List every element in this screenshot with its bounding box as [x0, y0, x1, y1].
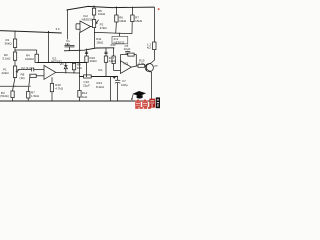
wire diode branch	[65, 69, 67, 73]
wire emitter down	[151, 73, 153, 101]
svg-text:(1k): (1k)	[20, 76, 25, 80]
junction	[127, 54, 128, 55]
potentiometer P1 wiper arrow	[16, 70, 19, 72]
svg-text:1.5kΩ: 1.5kΩ	[31, 94, 40, 98]
wire C7 bottom	[117, 83, 119, 101]
svg-text:4.7kΩ: 4.7kΩ	[55, 87, 64, 91]
op-amp IC3	[121, 61, 132, 74]
junction dots group	[14, 6, 136, 87]
resistor R7 1.5k	[27, 92, 30, 99]
wire wiper to C2	[18, 69, 32, 71]
junction	[79, 50, 80, 51]
svg-text:10k: 10k	[77, 66, 82, 70]
text labels	[0, 9, 158, 99]
transistor VT1	[145, 64, 153, 72]
wire into IC box	[118, 33, 120, 36]
resistor R15	[138, 64, 145, 67]
svg-text:47kΩ: 47kΩ	[100, 26, 108, 30]
resistor R9 10k	[72, 63, 75, 70]
wire IC2 out	[91, 26, 93, 28]
junction	[86, 76, 87, 77]
capacitor C1 10u plates	[65, 44, 75, 46]
svg-text:IC3: IC3	[124, 61, 129, 65]
wire IC3 feedback	[121, 55, 128, 64]
wire P2 down	[94, 28, 96, 48]
svg-text:10kΩ: 10kΩ	[119, 19, 127, 23]
wire R7 top	[28, 76, 30, 92]
wire R16 chain	[86, 49, 88, 57]
resistor R16	[85, 56, 88, 62]
red speck top right	[158, 8, 160, 10]
wire right rail upper	[154, 7, 156, 42]
junction	[48, 31, 49, 32]
wire y38 link	[95, 32, 133, 33]
capacitor C2 2.2u	[31, 68, 33, 72]
svg-text:22µF: 22µF	[83, 83, 90, 87]
junction	[48, 62, 49, 63]
wire C2 to IC1	[34, 69, 44, 71]
potentiometer P1 body	[13, 66, 16, 78]
svg-text:36kΩ: 36kΩ	[5, 42, 13, 46]
wire R9 branch	[73, 70, 75, 73]
wire P1 bottom	[13, 78, 16, 92]
junction	[14, 86, 15, 87]
wire C1 bottom	[69, 47, 71, 51]
svg-text:43kΩ: 43kΩ	[109, 59, 117, 63]
watermark red character 2	[142, 100, 148, 107]
junction	[29, 86, 30, 87]
wire ground link y86	[0, 85, 28, 87]
watermark red url dashes	[135, 107, 151, 109]
resistor R12 1k	[78, 91, 81, 98]
wire IC1 gain leg	[51, 77, 53, 83]
wire R10 chain	[113, 48, 115, 56]
junction	[110, 76, 111, 77]
junction	[67, 9, 68, 10]
potentiometer P2 wiper arrow	[96, 20, 99, 24]
junction	[73, 72, 74, 73]
svg-text:10kΩ: 10kΩ	[90, 59, 98, 63]
svg-text:10µ: 10µ	[65, 42, 70, 46]
svg-text:5.6k: 5.6k	[139, 61, 145, 65]
svg-text:1kΩ: 1kΩ	[82, 95, 88, 99]
wire R2-P1	[14, 60, 16, 66]
svg-text:5.1kΩ: 5.1kΩ	[3, 57, 12, 61]
resistor R1 36k	[13, 39, 16, 48]
wire mid rail A	[64, 48, 114, 51]
wire node B vertical	[48, 31, 50, 62]
svg-text:100µ: 100µ	[121, 83, 128, 87]
svg-text:VT: VT	[154, 64, 158, 68]
resistor R10	[112, 56, 115, 64]
svg-text:15kΩ: 15kΩ	[96, 41, 104, 45]
wire R1 chain top	[14, 31, 16, 39]
junction	[86, 62, 87, 63]
resistor R2 5.1k	[13, 52, 16, 60]
op-amp IC2	[80, 21, 91, 33]
junction	[65, 72, 66, 73]
resistor R8 1k	[30, 74, 36, 77]
junction	[94, 32, 95, 33]
resistor R5 10k	[115, 15, 118, 22]
IC label box	[112, 36, 128, 44]
svg-text:IC1: IC1	[98, 68, 103, 72]
wire bottom ground rail	[0, 100, 152, 102]
svg-text:8.2kΩ: 8.2kΩ	[96, 85, 105, 89]
junction	[117, 76, 118, 77]
wire input line	[0, 31, 62, 33]
junction	[113, 48, 114, 49]
wire C1 chain from top rail	[67, 10, 69, 40]
watermark red character 3	[149, 99, 155, 108]
wire right rail lower	[152, 50, 155, 63]
resistor R3 510k	[11, 91, 14, 98]
wire R12 chain	[79, 77, 81, 91]
wire lower signal line	[80, 76, 118, 78]
wire x110 drop	[110, 77, 112, 102]
svg-text:10µF: 10µF	[124, 47, 131, 51]
svg-text:3 F: 3 F	[56, 27, 61, 31]
junction	[136, 65, 137, 66]
svg-text:NE5532: NE5532	[114, 40, 125, 44]
svg-text:100kΩ: 100kΩ	[25, 57, 35, 61]
resistor R5 10k	[92, 8, 95, 15]
wire C5 bottom	[127, 53, 129, 55]
junction	[14, 31, 15, 32]
wire bias tap y50	[15, 49, 37, 51]
junction	[79, 76, 80, 77]
potentiometer P2 body	[92, 20, 95, 28]
svg-text:C2 (2.2µ): C2 (2.2µ)	[21, 66, 34, 70]
junction	[132, 7, 133, 8]
wire R5 chain top	[93, 6, 95, 8]
wire R6 chain	[131, 7, 133, 15]
junction	[93, 6, 94, 7]
plus mark C7	[113, 77, 116, 79]
wire R19 to ground	[51, 92, 53, 101]
wire IC2 input stubs	[76, 23, 80, 25]
resistor R13 series	[84, 75, 92, 78]
svg-text:15kΩ: 15kΩ	[135, 19, 143, 23]
op-amp IC1	[44, 65, 56, 79]
junction	[116, 6, 117, 7]
wire IC3 out to base	[131, 66, 138, 67]
wire R5 chain	[115, 7, 117, 15]
wire R1-R2	[14, 48, 16, 53]
svg-text:(510k): (510k)	[0, 94, 9, 98]
svg-text:22kΩ: 22kΩ	[2, 71, 10, 75]
resistor R14 feedback	[128, 53, 134, 56]
watermark cap icon	[131, 91, 146, 100]
junction	[29, 75, 30, 76]
wire R5 to P2	[93, 15, 95, 20]
diode VD1	[64, 66, 67, 69]
wire R17 chain	[105, 48, 107, 56]
resistor R6 15k	[131, 15, 134, 22]
wire top supply rail	[67, 6, 155, 10]
wire R8 line	[30, 75, 44, 77]
watermark red character 1	[135, 100, 141, 107]
resistor R18 1.2k	[153, 42, 156, 50]
junction	[14, 49, 15, 50]
resistor R19 4.7k	[50, 84, 53, 92]
wire mid rail B	[37, 62, 87, 64]
junction	[105, 76, 106, 77]
wire IC1 output	[56, 71, 80, 74]
watermark black character 4	[156, 97, 160, 108]
junction	[119, 33, 120, 34]
resistor R17	[104, 56, 107, 62]
wire C7 top	[117, 77, 119, 81]
svg-text:NE5532: NE5532	[82, 17, 93, 21]
junction	[69, 50, 70, 51]
wire IC1 out down	[79, 33, 81, 77]
wire R4 top	[36, 50, 38, 54]
junction	[79, 72, 80, 73]
svg-text:10kΩ: 10kΩ	[98, 12, 106, 16]
resistor R4 100k	[35, 54, 38, 62]
capacitor C7 100u plates	[115, 79, 120, 81]
capacitor C5 plates	[125, 50, 130, 52]
